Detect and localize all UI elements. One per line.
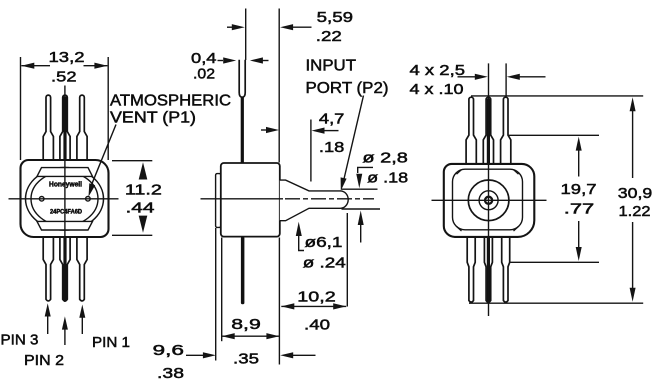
dim ø2,8 arrow down [356,174,362,189]
rear body outline [444,164,535,237]
rv pin left bottom [467,237,475,302]
svg-text:19,7: 19,7 [561,181,597,198]
rv pin middle bottom [484,237,492,302]
svg-text:4 x .10: 4 x .10 [410,81,464,98]
dim 30,9 extension top [471,95,643,97]
svg-text:8,9: 8,9 [231,316,261,333]
dim 10,2 line [281,305,346,307]
dim 4x2,5 arrow left [458,76,476,78]
dim 13,2 line [21,65,107,67]
dim 30,9 extension bottom [469,302,643,304]
port circle outer [468,180,509,221]
svg-text:.18: .18 [319,139,345,156]
dim 5,59 extension line (body edge) [278,9,280,163]
dim 8,9 arrowhead right [266,333,279,339]
pin 3 bottom lead [43,237,53,301]
dim 10,2 extension line (tube tip) [346,213,348,307]
input port leader arrowhead [341,177,347,190]
dim 8,9 extension left [221,238,223,342]
svg-text:ø .24: ø .24 [303,255,346,272]
dim 0,4 arrow left [218,60,224,62]
input port cone and tube [280,180,348,221]
dim 8,9 / 9,6 / 10,2 extension right [278,238,280,365]
svg-text:PIN 3: PIN 3 [1,332,39,349]
svg-text:PORT (P2): PORT (P2) [306,80,389,97]
package body outline [21,160,109,237]
pin 2 top lead (vent tube) [60,95,70,160]
dim 4x2,5 arrow right [507,74,520,80]
svg-text:0,4: 0,4 [191,50,217,67]
dim 9,6 line right w/ arrow [280,352,293,358]
vent tube (hollow, top) [239,60,245,97]
top crimp band [37,168,93,177]
atmospheric vent leader line [91,125,116,186]
dim 11.2 extension bottom [112,234,152,236]
svg-text:ø .18: ø .18 [367,170,408,187]
dim 30,9 arrow up [630,97,636,111]
svg-text:.40: .40 [304,317,330,334]
dim 5,59 extension line (tube) [245,9,247,61]
vent hole left [39,197,44,202]
svg-text:ATMOSPHERIC: ATMOSPHERIC [110,93,231,110]
dim 9,6 line left w/ arrow [186,354,204,356]
svg-text:VENT (P1): VENT (P1) [110,109,196,126]
input port leader line [343,96,364,185]
svg-text:24PC4FA6D: 24PC4FA6D [50,209,82,216]
svg-text:.44: .44 [126,199,155,216]
dim 9,6 extension (flange) [215,228,217,361]
svg-text:PIN 2: PIN 2 [24,352,64,369]
dim 19,7 extension bottom [511,261,600,263]
port circle middle [479,191,498,210]
dim 4,7 extension line [310,120,312,182]
svg-text:11.2: 11.2 [125,182,162,199]
svg-text:INPUT: INPUT [306,58,357,75]
rv horizontal centerline [432,199,547,201]
dim 19,7 arrow up [576,137,582,151]
svg-text:1.22: 1.22 [619,203,651,220]
PIN 3 arrow [45,303,51,316]
dim ø2,8 leader shelf [358,167,373,173]
can lid ellipse [26,168,104,231]
lid inner rim ellipse [31,172,98,226]
dim 0,4 arrow right [250,57,263,63]
svg-text:10,2: 10,2 [297,289,336,306]
dim ø2,8 arrow up [358,211,364,226]
dim 5,59 arrow left [227,26,233,28]
dim 10,2 arrowhead left [281,303,294,309]
atmospheric vent leader arrowhead [89,183,96,197]
rv pin left top [466,97,476,164]
bottom lead (side view) [241,237,245,304]
pin 1 top lead [77,95,87,160]
dim 13,2 arrowhead left [21,63,34,69]
dim ø6,1 arrow up [296,222,302,236]
pin 2 bottom lead [60,237,70,301]
side view centerline [201,198,284,200]
bottom crimp band [37,221,93,230]
dim 8,9 arrowhead left [222,333,235,339]
dim 13,2 extension line right [107,57,109,160]
dim 11.2 arrow up [139,162,148,179]
dim 11.2 extension top [112,160,152,162]
svg-text:13,2: 13,2 [49,49,85,66]
svg-text:4 x 2,5: 4 x 2,5 [410,62,466,79]
dim 30,9 arrow down [630,288,636,302]
svg-text:9,6: 9,6 [153,342,185,359]
rv pin right bottom [502,237,510,302]
pin 3 top lead [43,95,53,160]
svg-text:.02: .02 [193,66,215,83]
rear rim crimp tick top-right [514,170,519,175]
svg-text:.38: .38 [157,365,184,381]
rear rim crimp tick bottom-right [514,226,519,231]
dim 19,7 arrow down [576,247,582,261]
svg-text:PIN 1: PIN 1 [92,334,130,351]
svg-text:ø 2,8: ø 2,8 [362,150,408,167]
left view horizontal centerline [9,198,119,200]
PIN 1 arrow [79,305,85,318]
side body outline [221,163,280,237]
svg-text:.77: .77 [564,201,595,218]
svg-text:4,7: 4,7 [319,111,345,128]
vent pin (solid) [241,97,244,163]
rear inner rim [453,169,523,230]
vent hole ring [485,197,492,204]
dim 10,2 arrowhead right [333,303,346,309]
rv pin middle top (vent tube) [483,97,493,164]
dim 4,7 arrow left [261,129,267,131]
dim 19,7 extension top [508,134,599,136]
dim 13,2 extension line left [20,57,22,160]
dim ø2,8 extension top [342,188,378,190]
rear rim crimp tick bottom-left [457,226,462,231]
dim 8,9 line [222,335,280,337]
dim 4,7 arrow right [312,128,325,134]
PIN 2 arrow [62,316,68,329]
dim 4x2,5 extension line [505,63,507,96]
svg-text:ø6,1: ø6,1 [305,234,343,251]
svg-text:.22: .22 [316,28,342,45]
svg-text:.52: .52 [51,69,77,86]
vent hole right (P1) [86,197,91,202]
dim 11.2 arrow down [139,216,148,233]
dim ø2,8 extension bottom [342,208,381,210]
dim 5,59 arrow right [280,24,293,30]
rear rim crimp tick top-left [457,170,462,175]
svg-text:.35: .35 [233,351,259,368]
pin 1 bottom lead [77,237,87,301]
svg-text:30,9: 30,9 [618,185,653,202]
dim 13,2 arrowhead right [94,63,107,69]
mounting flange [216,174,221,228]
rv pin right top [501,97,511,164]
svg-text:5,59: 5,59 [317,9,354,26]
rv vertical centerline [488,63,490,316]
left view vertical centerline [64,86,66,303]
